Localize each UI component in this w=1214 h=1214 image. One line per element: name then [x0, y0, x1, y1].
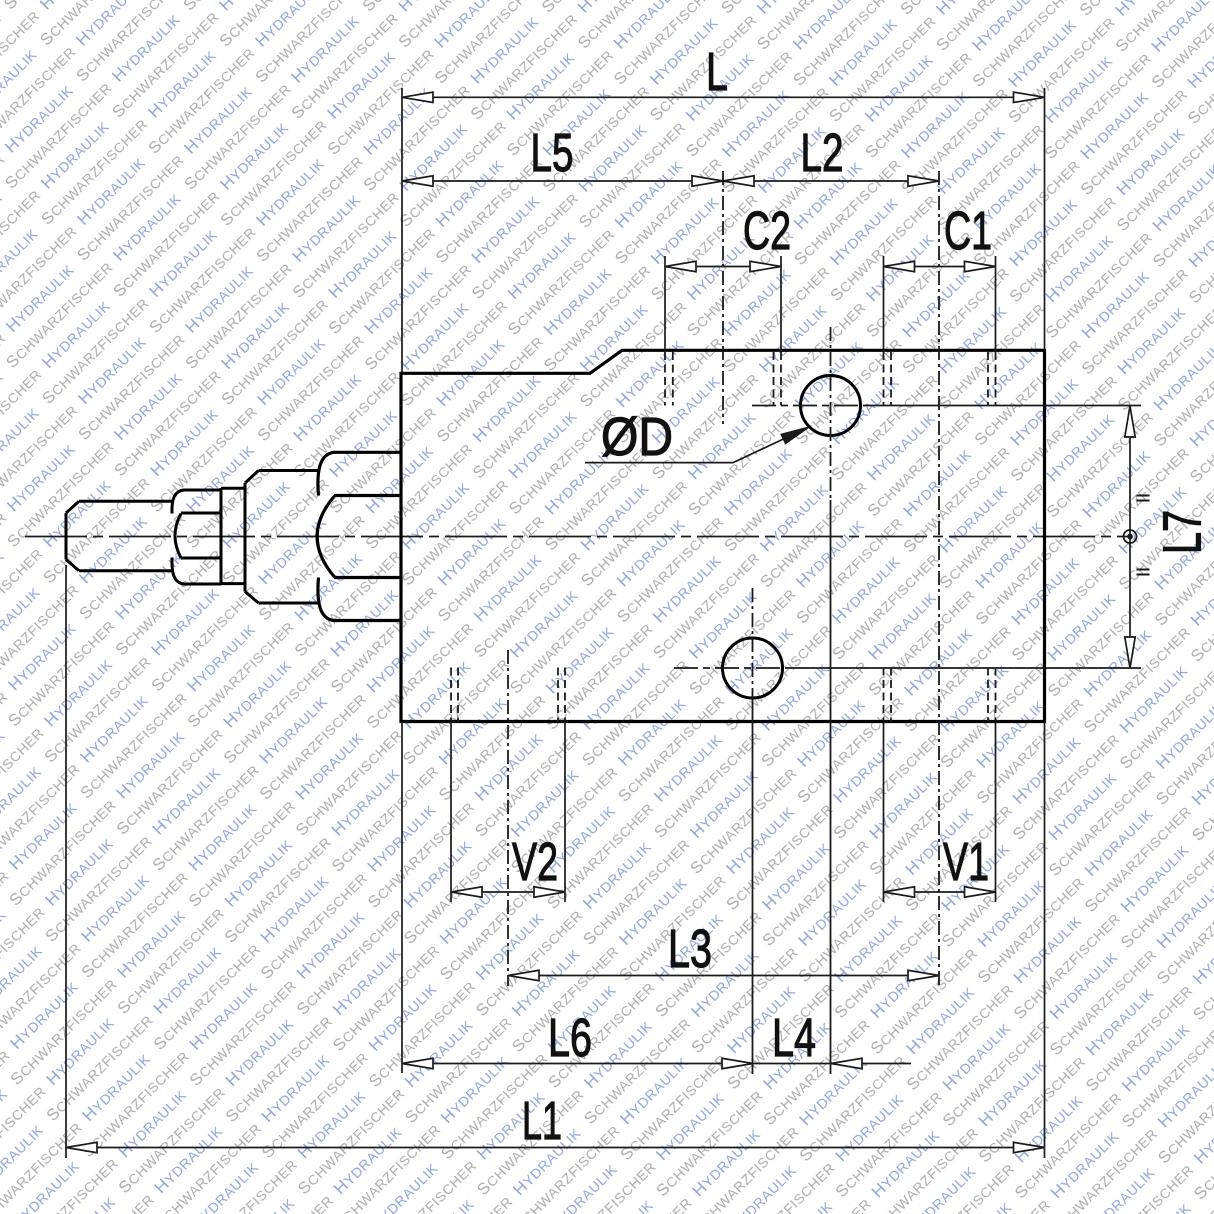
cartridge taper collar: [245, 471, 259, 604]
dimension V1: [884, 887, 996, 897]
dimension C2: [665, 261, 781, 271]
hole D top: [801, 376, 861, 436]
dimension L1: [66, 1142, 1045, 1152]
dimension L3: [508, 970, 939, 980]
svg-text:V2: V2: [512, 832, 558, 892]
main centerline: [25, 536, 1128, 538]
extension line right block top: [1044, 88, 1046, 350]
cartridge locknut hex: [172, 488, 221, 585]
dimension L: [402, 92, 1045, 102]
svg-text:L6: L6: [548, 1008, 592, 1068]
extension line left block bottom: [401, 722, 403, 1074]
dimension L7 vertical: [1125, 406, 1135, 668]
dimension L6 and L4: [402, 1058, 911, 1068]
hole D horizontal axis line: [752, 405, 870, 407]
port C1 thread dashes: [884, 352, 996, 406]
extension line left block top: [401, 88, 403, 373]
bottom hole horizontal axis line: [674, 667, 792, 669]
leader arrow OD: [585, 428, 808, 463]
dimension V2: [451, 887, 565, 897]
svg-text:ØD: ØD: [601, 407, 673, 467]
centerline bottom hole vertical: [752, 588, 754, 700]
svg-text:L: L: [706, 42, 728, 102]
cartridge stem: [66, 501, 173, 571]
port V2 thread dashes: [451, 668, 565, 722]
svg-text:L7: L7: [1152, 510, 1212, 554]
cartridge washer: [221, 488, 245, 583]
svg-text:L2: L2: [801, 123, 844, 183]
svg-text:C1: C1: [944, 201, 992, 261]
centerline hole D vertical: [830, 327, 832, 500]
cartridge body cylinder: [259, 471, 319, 604]
extension line L1 right: [1044, 722, 1046, 1159]
extension lines port V2: [451, 722, 565, 903]
extension lines port C1: [884, 256, 996, 352]
valve block body: [401, 350, 1045, 721]
dimension L5: [402, 176, 723, 186]
svg-text:C2: C2: [743, 201, 791, 261]
svg-text:L5: L5: [531, 123, 574, 183]
L7 equality marks: [1137, 496, 1150, 575]
cartridge main hex: [317, 452, 401, 620]
port C2 thread dashes: [665, 352, 781, 406]
hole bottom: [723, 638, 783, 698]
svg-text:L1: L1: [522, 1091, 562, 1151]
svg-text:L3: L3: [668, 919, 712, 979]
centerline port V2: [507, 650, 509, 986]
dimension L2: [723, 176, 939, 186]
svg-text:V1: V1: [943, 832, 989, 892]
extension line L1 left: [65, 565, 67, 1158]
centerline port C2: [722, 171, 724, 424]
L7 symmetry dot: [1124, 530, 1137, 543]
svg-text:L4: L4: [772, 1008, 816, 1068]
dimension C1: [884, 261, 996, 271]
extension lines port C2: [665, 256, 781, 352]
extension lines port V1: [884, 722, 996, 903]
centerline ports C1 V1: [938, 171, 940, 986]
port V1 thread dashes: [884, 668, 996, 722]
